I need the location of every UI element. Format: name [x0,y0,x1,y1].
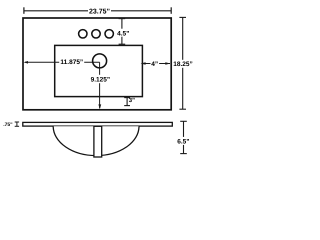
label 11.875 inch [59,58,84,67]
label 18.25 inch [173,60,194,68]
bowl half-ellipse (front view) [53,126,139,155]
slab thickness dimension .75 [15,122,19,126]
svg-text:6.5”: 6.5” [177,139,189,146]
label 6.5 inch [177,137,189,146]
vertical dimension 4.5 from top edge to basin cutout [119,19,126,45]
faucet hole circle 2 [92,30,100,38]
svg-text:4.5”: 4.5” [117,30,129,37]
svg-text:11.875”: 11.875” [60,59,83,66]
faucet hole circle 3 [105,30,113,38]
front view slab rectangle [23,122,173,126]
svg-text:4”: 4” [151,61,158,68]
overall height dimension 18.25 at right [179,17,186,109]
horizontal dimension 4 between cutout and right edge [142,63,171,65]
top width dimension line 23.75 [24,7,171,14]
label 4.5 inch [117,29,129,38]
arrowhead left at outer edge [24,61,28,64]
svg-text:3”: 3” [129,97,135,104]
drain column rectangle [94,126,102,157]
drain hole circle [93,54,107,68]
leader line 11.875 with left arrow [25,61,100,63]
label 4 inch [151,59,160,68]
vertical dimension 3 below cutout [124,98,130,106]
countertop outer rectangle (top view) [23,18,171,110]
label 9.125 inch [90,75,112,84]
svg-text:18.25”: 18.25” [173,61,193,68]
basin cutout inner rectangle [55,45,143,96]
front height dimension 6.5 at right [180,121,187,153]
svg-text:9.125”: 9.125” [91,77,111,84]
svg-text:.75”: .75” [3,122,13,128]
arrowhead down at outer bottom edge [98,104,101,109]
arrowhead right at outer edge [165,62,170,65]
svg-text:23.75”: 23.75” [89,9,110,16]
leader line 9.125 vertical with bottom arrow [99,62,101,108]
arrowhead left at cutout edge [141,62,146,65]
faucet hole circle 1 [79,30,87,38]
